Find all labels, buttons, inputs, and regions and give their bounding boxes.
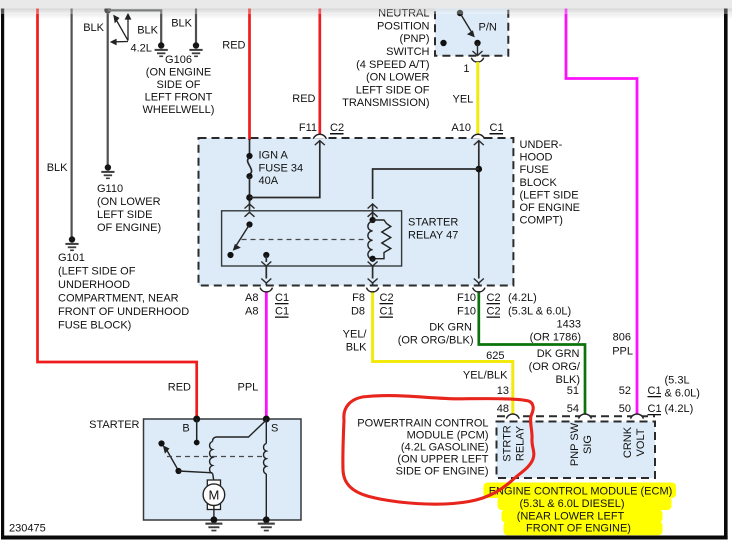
svg-text:4.2L: 4.2L: [131, 43, 152, 55]
frame right edge: [724, 9, 728, 540]
svg-text:13: 13: [497, 385, 509, 397]
svg-text:FUSE 34: FUSE 34: [259, 163, 304, 175]
wire relay coil to F8: [368, 259, 378, 285]
relay output node: [263, 252, 269, 258]
ECM connector box: [497, 416, 656, 478]
label POWERTRAIN CONTROL MODULE (PCM): [357, 418, 488, 478]
svg-text:54: 54: [567, 403, 579, 415]
4.2L splice arrows: [110, 13, 132, 46]
svg-text:STRTR: STRTR: [502, 425, 514, 462]
svg-text:(4.2L): (4.2L): [665, 403, 694, 415]
ground G110: [101, 164, 114, 179]
wire PPL A8 to starter S: [265, 293, 268, 420]
svg-text:(5.3L: (5.3L: [665, 375, 690, 387]
svg-text:RED: RED: [222, 40, 245, 52]
toolbar gray band: [0, 0, 732, 9]
wire BLK to G106 right: [195, 9, 197, 43]
svg-text:YEL: YEL: [453, 94, 474, 106]
starter hold-in coil: [264, 419, 267, 519]
svg-text:(ON LOWER: (ON LOWER: [366, 72, 430, 84]
svg-text:D8: D8: [351, 306, 365, 318]
svg-text:C1: C1: [490, 122, 504, 134]
ground (left of G106): [155, 42, 168, 57]
node A10 branch junction: [476, 166, 483, 173]
wire BLK to G110: [107, 9, 109, 165]
node starter S terminal: [263, 416, 270, 423]
frame left edge: [1, 9, 4, 540]
svg-text:F11: F11: [299, 122, 317, 134]
wire RED to starter B: [38, 9, 197, 420]
svg-text:F10: F10: [457, 292, 476, 304]
svg-text:B: B: [182, 423, 189, 435]
svg-text:(ON ENGINE: (ON ENGINE: [146, 67, 211, 79]
svg-text:FUSE BLOCK): FUSE BLOCK): [58, 320, 131, 332]
svg-text:UNDER-: UNDER-: [520, 139, 563, 151]
svg-text:(OR 1786): (OR 1786): [530, 332, 581, 344]
label NEUTRAL POSITION (PNP) SWITCH: [342, 8, 430, 110]
wire branch to C2 feed: [250, 141, 320, 198]
svg-text:PPL: PPL: [612, 346, 633, 358]
ground G101: [65, 236, 78, 251]
label G110: [97, 183, 161, 234]
svg-text:P/N: P/N: [479, 22, 497, 34]
svg-text:(LEFT SIDE OF: (LEFT SIDE OF: [58, 266, 136, 278]
wire B stub: [196, 419, 198, 443]
relay mech dashed link: [242, 239, 367, 241]
connector F10 C2: [473, 288, 485, 292]
wire BLK to G101: [70, 9, 72, 237]
svg-text:MODULE (PCM): MODULE (PCM): [407, 430, 489, 442]
svg-text:50: 50: [619, 403, 631, 415]
ground starter solenoid: [258, 516, 275, 531]
wire YEL from PNP to A10: [476, 62, 479, 135]
svg-text:OF ENGINE: OF ENGINE: [520, 202, 581, 214]
svg-text:BLK: BLK: [346, 342, 367, 354]
svg-text:UNDERHOOD: UNDERHOOD: [58, 279, 130, 291]
svg-text:ENGINE CONTROL MODULE (ECM): ENGINE CONTROL MODULE (ECM): [489, 486, 673, 498]
svg-text:G110: G110: [97, 183, 123, 195]
svg-text:A8: A8: [245, 292, 258, 304]
svg-text:625: 625: [486, 350, 504, 362]
svg-text:SIDE OF ENGINE): SIDE OF ENGINE): [396, 466, 489, 478]
svg-text:COMPARTMENT, NEAR: COMPARTMENT, NEAR: [58, 293, 179, 305]
red freehand circle around PCM: [343, 396, 534, 505]
label IGN A FUSE 34 40A: [259, 150, 304, 188]
connector ECM pin 50: [631, 414, 644, 419]
svg-text:(4.2L GASOLINE): (4.2L GASOLINE): [401, 442, 489, 454]
ground G106: [189, 42, 202, 57]
wire top horizontal to G106 branch: [108, 10, 162, 42]
svg-text:RED: RED: [292, 93, 315, 105]
starter switch: [158, 440, 212, 474]
svg-text:C1: C1: [648, 403, 662, 415]
svg-text:48: 48: [497, 403, 509, 415]
svg-text:(ON UPPER LEFT: (ON UPPER LEFT: [397, 454, 488, 466]
PNP switch box: [435, 5, 508, 56]
wire RED to F11 connector: [318, 9, 321, 135]
frame bottom edge: [1, 536, 728, 540]
svg-text:FUSE: FUSE: [520, 164, 549, 176]
svg-text:IGN A: IGN A: [259, 150, 289, 162]
svg-text:F10: F10: [457, 306, 476, 318]
svg-text:OF ENGINE): OF ENGINE): [97, 222, 161, 234]
svg-text:LEFT SIDE: LEFT SIDE: [97, 209, 152, 221]
ground starter motor: [205, 516, 222, 531]
svg-text:RELAY: RELAY: [515, 425, 527, 461]
svg-text:(5.3L & 6.0L DIESEL): (5.3L & 6.0L DIESEL): [520, 498, 625, 510]
wire DK GRN F10 to ECM 54: [479, 293, 585, 415]
svg-text:DK GRN: DK GRN: [537, 348, 580, 360]
svg-text:TRANSMISSION): TRANSMISSION): [342, 97, 429, 109]
svg-text:(PNP): (PNP): [400, 33, 430, 45]
svg-text:BLK: BLK: [83, 22, 104, 34]
connector F11 C2: [313, 134, 326, 139]
svg-text:PNP SW: PNP SW: [569, 422, 581, 466]
svg-text:M: M: [208, 488, 219, 503]
svg-text:A10: A10: [451, 122, 471, 134]
svg-text:(OR ORG/: (OR ORG/: [529, 361, 581, 373]
svg-text:S: S: [271, 423, 278, 435]
starter mech dashed link: [167, 456, 264, 458]
svg-text:STARTER: STARTER: [89, 419, 139, 431]
wire relay output to A8: [261, 255, 271, 285]
svg-text:1433: 1433: [557, 319, 581, 331]
svg-text:BLOCK: BLOCK: [520, 177, 558, 189]
wire YEL/BLK F8 to PCM 48: [373, 293, 513, 415]
svg-text:C2: C2: [380, 292, 394, 304]
svg-text:SWITCH: SWITCH: [386, 46, 429, 58]
svg-text:52: 52: [619, 385, 631, 397]
svg-text:& 6.0L): & 6.0L): [665, 388, 700, 400]
svg-text:LEFT SIDE OF: LEFT SIDE OF: [356, 84, 430, 96]
svg-text:(LEFT SIDE: (LEFT SIDE: [520, 189, 579, 201]
starter box: [144, 419, 302, 520]
label UNDERHOOD FUSE BLOCK: [520, 139, 581, 227]
svg-text:BLK: BLK: [171, 18, 192, 30]
connector ECM pin 54: [579, 414, 592, 419]
svg-text:WHEELWELL): WHEELWELL): [143, 104, 215, 116]
svg-text:A8: A8: [245, 306, 258, 318]
wire PPL right side: [566, 9, 637, 415]
svg-text:RED: RED: [168, 382, 191, 394]
svg-text:C2: C2: [330, 122, 344, 134]
svg-text:G101: G101: [58, 252, 85, 264]
connector pin 1 of PNP: [471, 58, 483, 62]
connector ECM pin 48: [506, 414, 519, 419]
node junction top-left: [104, 7, 111, 14]
svg-text:POSITION: POSITION: [377, 20, 430, 32]
svg-text:FRONT OF UNDERHOOD: FRONT OF UNDERHOOD: [58, 306, 189, 318]
starter pull-in coil: [210, 420, 267, 481]
svg-text:(4.2L): (4.2L): [508, 292, 537, 304]
svg-text:C2: C2: [487, 292, 501, 304]
svg-text:51: 51: [567, 385, 579, 397]
svg-text:VOLT: VOLT: [635, 428, 647, 456]
svg-text:HOOD: HOOD: [520, 152, 553, 164]
svg-text:(ON LOWER: (ON LOWER: [97, 196, 161, 208]
svg-text:COMPT): COMPT): [520, 215, 563, 227]
node starter B terminal: [193, 416, 200, 423]
svg-text:PPL: PPL: [238, 382, 259, 394]
wire RED to IGN A fuse: [248, 9, 251, 141]
connector F8 C2 / D8 C1: [366, 288, 378, 292]
svg-text:DK GRN: DK GRN: [429, 322, 472, 334]
svg-text:1: 1: [463, 63, 469, 75]
svg-text:RELAY 47: RELAY 47: [408, 230, 458, 242]
svg-text:(4 SPEED A/T): (4 SPEED A/T): [356, 59, 429, 71]
relay coil feed arrows: [368, 204, 378, 209]
svg-text:F8: F8: [352, 292, 365, 304]
toolbar shadow gradient: [0, 9, 732, 20]
toolbar shadow overlay: [0, 9, 732, 15]
svg-text:CRNK: CRNK: [622, 426, 634, 458]
connector A10 C1: [472, 134, 485, 139]
svg-text:(OR ORG/BLK): (OR ORG/BLK): [398, 335, 474, 347]
svg-text:(NEAR LOWER LEFT: (NEAR LOWER LEFT: [517, 511, 625, 523]
svg-text:40A: 40A: [259, 175, 279, 187]
svg-text:C2: C2: [487, 306, 501, 318]
label G106: [143, 54, 215, 116]
yellow highlight ECM note: [484, 483, 677, 536]
svg-text:BLK: BLK: [47, 162, 68, 174]
relay switch contact arrows at box edge: [245, 204, 255, 209]
svg-text:POWERTRAIN CONTROL: POWERTRAIN CONTROL: [357, 418, 488, 430]
starter motor M: [203, 480, 225, 519]
svg-text:G106: G106: [165, 54, 192, 66]
svg-text:(5.3L & 6.0L): (5.3L & 6.0L): [508, 306, 571, 318]
svg-text:C1: C1: [380, 306, 394, 318]
svg-text:C1: C1: [648, 385, 662, 397]
PNP switch internals: [440, 10, 497, 56]
connector A8 C1: [260, 288, 272, 292]
wire A10 into block down to F10: [474, 141, 484, 285]
node fuse output junction: [246, 194, 253, 201]
svg-text:SIG: SIG: [582, 435, 594, 454]
label ENGINE CONTROL MODULE (ECM): [489, 486, 673, 535]
relay switch: [227, 221, 252, 258]
relay coil with resistor: [368, 217, 391, 262]
starter relay 47 box: [222, 211, 402, 266]
svg-text:YEL/: YEL/: [343, 329, 368, 341]
svg-text:SIDE OF: SIDE OF: [156, 79, 200, 91]
svg-text:806: 806: [613, 332, 631, 344]
svg-text:C1: C1: [275, 306, 289, 318]
svg-text:C1: C1: [275, 292, 289, 304]
svg-text:BLK: BLK: [137, 25, 158, 37]
fuse IGN A FUSE 34 40A: [246, 139, 252, 225]
svg-text:LEFT FRONT: LEFT FRONT: [145, 92, 213, 104]
svg-text:230475: 230475: [9, 523, 46, 535]
svg-text:STARTER: STARTER: [408, 217, 458, 229]
svg-text:YEL/BLK: YEL/BLK: [463, 370, 508, 382]
underhood fuse block box: [199, 138, 514, 286]
label G101: [58, 252, 189, 332]
wire branch to relay coil: [373, 169, 479, 199]
svg-text:FRONT OF ENGINE): FRONT OF ENGINE): [526, 523, 631, 535]
